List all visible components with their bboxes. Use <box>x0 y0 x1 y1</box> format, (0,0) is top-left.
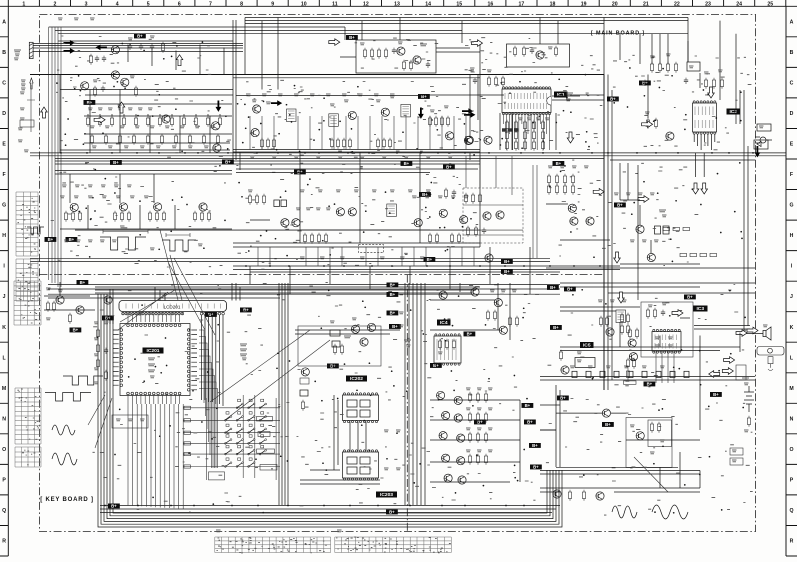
B+ supply label 40 <box>710 392 722 397</box>
jack contact symbol <box>760 137 766 143</box>
svg-text:9: 9 <box>271 1 274 7</box>
regulator IC5 body <box>575 358 595 368</box>
B+ supply label 15 <box>45 237 57 242</box>
B+ supply label 38 <box>550 325 562 330</box>
record level transistor <box>636 225 644 233</box>
IF stage 4 transistors <box>446 132 454 140</box>
B+ supply label 32 <box>524 420 536 425</box>
B+ supply label 18 <box>387 283 399 288</box>
row I long wires <box>30 258 620 266</box>
solid arrow right col9 <box>271 100 282 106</box>
jack open arrows <box>724 357 735 364</box>
center vertical bundle <box>279 283 288 505</box>
audio stage 4 resistors <box>193 211 196 222</box>
svg-text:O: O <box>2 447 6 453</box>
bottom long wires <box>100 506 560 513</box>
IC1 sub-circuit box above <box>507 44 570 67</box>
label speckle mid-left <box>51 163 226 267</box>
svg-text:K: K <box>2 325 6 331</box>
RF amp transistor Q1 <box>111 71 119 79</box>
FM detector text <box>360 43 365 45</box>
W1 dimension bar <box>103 230 148 234</box>
center band transistors 2 <box>336 208 344 216</box>
IC5 transistor <box>561 366 569 374</box>
IF text row <box>246 94 251 96</box>
svg-text:21: 21 <box>643 1 649 7</box>
solid arrow small near jack <box>755 146 761 157</box>
frame row ticks right <box>786 6 797 556</box>
power area wires <box>540 385 678 467</box>
left vertical bus lower continuation <box>49 158 61 287</box>
pointer diagonal lines key area <box>88 230 330 448</box>
IC203 reference label <box>376 492 397 499</box>
audio stage 3 transistor <box>154 203 162 211</box>
RF stage resistors row D <box>88 108 93 110</box>
RF text smudges E row <box>90 126 95 128</box>
B+ supply label 7 <box>418 94 430 99</box>
key area left drops <box>98 289 113 324</box>
label speckle mid-center <box>236 163 478 269</box>
IF stage 3 resistors <box>376 138 379 149</box>
IF stage 1 transformer T1 <box>287 109 297 122</box>
open arrow right D row <box>94 117 105 124</box>
voltage table T4 (left margin) <box>15 388 41 444</box>
center band transistors 3 <box>414 219 422 227</box>
divider crossing verticals <box>250 247 530 294</box>
telescopic antenna symbol <box>30 78 33 89</box>
horizontal resistors row H col21 <box>663 227 670 230</box>
bottom table header text <box>216 530 221 532</box>
headphone jack block right edge <box>757 124 771 131</box>
key scan resistors row 1 <box>468 392 471 403</box>
power switch transistor <box>602 409 610 417</box>
svg-text:25: 25 <box>767 1 773 7</box>
bold vertical at col 19 <box>603 75 605 391</box>
svg-text:IC202: IC202 <box>350 376 363 382</box>
solid arrow down col7 <box>216 101 222 112</box>
solid arrow down col13-14 <box>418 108 424 119</box>
waveform square margin W4b <box>63 376 103 385</box>
svg-text:20: 20 <box>612 1 618 7</box>
IC3 upper cluster parts <box>646 308 649 319</box>
key scan transistor pair row 3 <box>439 432 447 440</box>
audio stage 1 transistor <box>70 203 78 211</box>
svg-text:R: R <box>2 539 6 545</box>
label speckle mid-right <box>549 160 698 266</box>
IC1 notch <box>547 97 551 106</box>
RF stage wire row D <box>84 115 232 117</box>
IF stage 1 resistors <box>260 138 263 149</box>
signal arrow left A3 <box>96 45 107 51</box>
middle band extra wires <box>236 160 755 240</box>
B+ supply label 10 <box>110 160 122 165</box>
svg-text:F: F <box>790 172 793 178</box>
right band verticals <box>620 153 704 253</box>
svg-text:F: F <box>3 172 6 178</box>
row B tuning caps <box>128 44 132 50</box>
B+ supply label 16 <box>66 237 78 242</box>
open arrow right into IC2 <box>642 121 653 128</box>
balance pots boxes <box>274 200 280 207</box>
W1 level label <box>150 248 155 250</box>
osc transistor Q4 <box>213 144 221 152</box>
row F long wires <box>30 153 786 164</box>
label speckle ic202 area <box>297 282 401 505</box>
open arrow up at col6 row C <box>176 55 183 66</box>
svg-text:R: R <box>790 539 794 545</box>
IF stage 3 transistor <box>381 108 389 116</box>
row H long wire <box>75 229 480 231</box>
additional row E-F wires <box>55 24 604 159</box>
mid-left verticals <box>70 174 175 229</box>
IC2 reference label <box>727 109 741 116</box>
mute dashed box <box>359 245 384 253</box>
FM detector enclosure box <box>356 40 436 73</box>
voltage table T3 (left margin) <box>14 281 41 325</box>
IC2 upper resistor row <box>650 62 653 73</box>
FM detector transistors <box>397 47 405 55</box>
key switch matrix diagonal switches <box>236 407 238 409</box>
IC202 internal boxes <box>347 400 357 407</box>
main/key board divider dash-dot <box>39 274 604 276</box>
IC1 below resistor grid <box>505 120 508 131</box>
note text right <box>404 340 411 342</box>
svg-text:J: J <box>790 294 793 300</box>
label speckle ic4 area <box>402 285 539 500</box>
svg-text:12: 12 <box>363 1 369 7</box>
headphones rounded label box <box>757 347 784 356</box>
volume cluster boxes <box>330 330 340 336</box>
B+ supply label 20 <box>424 257 436 262</box>
DC-DC small parts <box>650 422 653 433</box>
audio stage 3 resistors <box>148 211 151 222</box>
B+ supply label 37 <box>547 285 559 290</box>
B+ supply label 26 <box>389 324 401 329</box>
IC2 top extra parts <box>704 78 707 89</box>
driver IC203 body with pins <box>343 450 379 480</box>
jack block box <box>736 365 746 380</box>
left margin small box row E <box>20 120 34 127</box>
IC2 left resistors <box>646 118 649 129</box>
IC2 test point box <box>687 62 700 71</box>
svg-text:2: 2 <box>54 1 57 7</box>
LCD top entry verticals <box>155 283 240 301</box>
IC4 area resistors upper <box>486 310 489 321</box>
IC4 right vertical <box>460 283 520 482</box>
G-H cluster filler parts <box>464 193 467 204</box>
ferrite bar antenna <box>29 42 33 58</box>
B+ supply label 25 <box>387 311 399 316</box>
IF stage 2 transistor <box>348 111 356 119</box>
wires right of IC1 <box>552 96 604 100</box>
svg-text:13: 13 <box>394 1 400 7</box>
IC203 internal boxes <box>347 457 357 464</box>
mid-left transistors row C <box>81 82 89 90</box>
IF stage 2 transformer T2 <box>329 114 339 127</box>
B+ supply label 24 <box>387 292 399 297</box>
B+ supply label 31 <box>522 403 534 408</box>
center verticals drops <box>258 247 474 266</box>
lower-left transistor near IC202 <box>301 368 309 376</box>
right area long wires <box>540 377 755 475</box>
B+ supply label 14 <box>614 203 626 208</box>
F row wires left <box>55 171 232 175</box>
svg-text:11: 11 <box>332 1 338 7</box>
B+ supply label 23 <box>70 328 82 333</box>
B+ supply label 33 <box>529 443 541 448</box>
open arrow right col21 G <box>638 196 649 203</box>
left K wires <box>44 282 95 310</box>
IC2 verticals <box>648 34 744 140</box>
audio band text rows <box>62 185 67 187</box>
wire row E <box>84 133 232 135</box>
IC2 upper caps <box>684 78 688 84</box>
svg-text:14: 14 <box>425 1 431 7</box>
col 19 vertical pair <box>608 75 612 391</box>
IF stage 4 resistors <box>428 116 431 127</box>
right bottom M-N wires <box>540 377 700 441</box>
center band resistors 3 <box>428 233 431 244</box>
hatched pot box <box>387 204 397 217</box>
IC4 internal parts <box>438 339 441 350</box>
svg-text:16: 16 <box>487 1 493 7</box>
B+ near supply rail <box>644 382 656 387</box>
IC3 cluster text <box>598 300 603 302</box>
FM wires <box>340 48 480 57</box>
open arrow right col10 <box>329 39 340 46</box>
IC4 reference label <box>437 320 451 327</box>
right band text DNR <box>659 210 666 212</box>
svg-text:B: B <box>790 50 794 56</box>
IC3 area wires <box>560 307 740 351</box>
IC201 pins bottom <box>127 392 130 395</box>
volume cluster resistors <box>333 344 336 355</box>
G-H dashed alignment box <box>463 188 523 243</box>
svg-text:M: M <box>2 386 6 392</box>
open arrow down above IC2 <box>708 87 715 98</box>
label speckle IC2 area <box>613 55 752 150</box>
solid arrow right col15 <box>462 108 473 114</box>
extra transistors G-H col 15-16 <box>483 212 491 220</box>
LCD201 pin row left group <box>122 312 125 315</box>
IC201 left text <box>94 322 99 324</box>
antenna feed wires <box>33 43 243 51</box>
B+ supply label 4 <box>134 34 146 39</box>
B+ supply label 29 <box>464 332 476 337</box>
svg-text:4: 4 <box>116 1 119 7</box>
open arrow down col20 J <box>618 292 625 303</box>
key board top nest wires <box>95 287 480 293</box>
IC1 below text <box>518 118 523 120</box>
IC1 internal text <box>566 93 573 95</box>
svg-text:P: P <box>790 477 794 483</box>
LCD201 pin row right group <box>200 312 203 315</box>
IC2 pin fan wires <box>694 134 715 150</box>
key matrix bottom label box <box>209 472 225 480</box>
B+ supply label 13 <box>294 170 306 175</box>
power amp IC2 body with pins <box>693 101 717 134</box>
IC201 pins right <box>187 329 190 332</box>
DC jack blocks right edge <box>730 448 743 455</box>
svg-text:IC1: IC1 <box>557 92 565 98</box>
svg-text:IC4: IC4 <box>440 320 448 326</box>
svg-text:E: E <box>790 142 794 148</box>
vertical drops top-left <box>128 20 236 160</box>
bottom row resistors <box>568 490 571 501</box>
label speckle top-left <box>56 36 231 157</box>
IC1 below transistors <box>465 136 473 144</box>
IC201 reference label <box>143 348 164 355</box>
top bus wires <box>49 18 688 42</box>
left J-K cluster transistor <box>56 296 64 304</box>
B+ supply label 19 <box>564 287 576 292</box>
double open arrows down <box>692 183 699 194</box>
IC4 ladder wires <box>430 300 520 482</box>
svg-text:H: H <box>2 233 6 239</box>
left J-K text <box>46 288 51 290</box>
key board right boundary dash-dot <box>406 275 408 532</box>
IC3 cluster enclosure box <box>641 302 693 357</box>
frame border top line <box>8 5 786 7</box>
svg-text:[ KEY BOARD ]: [ KEY BOARD ] <box>40 497 94 503</box>
frame column ticks top <box>8 0 786 6</box>
svg-text:E: E <box>2 142 6 148</box>
IC3 internal hatch <box>655 335 677 349</box>
upper IC4 transistors <box>439 291 447 299</box>
svg-text:Q: Q <box>2 508 6 514</box>
key scan transistor row 5 <box>444 474 452 482</box>
LCD display LCD201 body <box>119 301 227 312</box>
center band wires <box>233 220 480 247</box>
table text speckle bottom tables <box>17 198 450 553</box>
label speckle above IC1 <box>465 38 548 71</box>
oscilloscope waveform square W2 <box>162 240 196 251</box>
B+ supply label 28 <box>430 363 442 368</box>
DC-DC inner box <box>648 420 672 447</box>
IC201 left small transistor <box>104 296 112 304</box>
IC1 pin fan wires below <box>504 114 550 151</box>
antenna label text <box>14 50 21 52</box>
IF stage 1 transistors <box>253 105 261 113</box>
left J-K second transistor <box>76 306 84 314</box>
svg-text:17: 17 <box>519 1 525 7</box>
battery symbol right edge <box>744 386 754 412</box>
label speckle top-mid <box>240 80 478 157</box>
supply rail text <box>570 366 575 368</box>
open arrow to speaker mid <box>747 327 758 334</box>
horizontal resistors row I col22 <box>680 253 687 256</box>
IC201 internal text <box>148 358 155 360</box>
W2 level label <box>198 244 203 246</box>
svg-text:D: D <box>790 111 794 117</box>
IC3 verticals <box>604 322 740 390</box>
IC201 bottom pin fan wires <box>128 404 183 509</box>
IC202 text <box>384 430 389 432</box>
row B transistor Q5 <box>111 46 119 54</box>
svg-text:1: 1 <box>22 1 25 7</box>
svg-text:10: 10 <box>301 1 307 7</box>
key right vertical bundle <box>202 315 224 406</box>
DC-DC transistor <box>636 432 644 440</box>
key scan resistors row 2 <box>468 412 471 423</box>
svg-text:N: N <box>790 416 794 422</box>
IC202 area wires <box>295 330 400 484</box>
B+ supply label 6 <box>84 100 96 105</box>
key matrix left feed resistors <box>184 406 191 409</box>
svg-text:A: A <box>2 19 6 25</box>
right half K row wires <box>560 283 755 293</box>
speaker label <box>763 325 768 327</box>
svg-text:H: H <box>790 233 794 239</box>
right band wires <box>546 200 755 268</box>
svg-text:7: 7 <box>209 1 212 7</box>
LCD201 segment ticks <box>126 304 221 309</box>
row C wire <box>60 89 233 91</box>
IC2 internal pin text hatch <box>695 107 713 129</box>
row J bus below divider <box>48 284 560 294</box>
waveform square W4 <box>45 393 91 402</box>
key board nested bus <box>98 316 562 527</box>
IC2 input transistor <box>666 132 674 140</box>
B+ supply label 39 <box>602 422 614 427</box>
volume cluster enclosure <box>298 326 381 366</box>
microcontroller IC201 body <box>120 324 190 396</box>
frame row ticks left <box>0 6 8 556</box>
IC3 output arrow <box>672 310 683 317</box>
W2 dimension bar <box>166 233 190 237</box>
B+ supply label 35 <box>108 504 120 509</box>
bottom row transistors <box>553 490 561 498</box>
IC3 reference label <box>693 306 708 313</box>
svg-text:23: 23 <box>705 1 711 7</box>
oscilloscope waveform square W1 <box>100 237 146 250</box>
IC3 bottom drops <box>656 352 674 383</box>
svg-text:J: J <box>3 294 6 300</box>
IC1 area verticals <box>470 75 556 161</box>
waveform sine W8 (bottom right) <box>652 505 688 519</box>
IC pin voltage table (bottom right) <box>335 537 452 553</box>
IC3 left transistor <box>606 328 614 336</box>
svg-text:O: O <box>789 447 793 453</box>
waveform square margin W3 <box>27 227 44 234</box>
right band transistors <box>568 204 576 212</box>
audio stage 4 transistor <box>199 203 207 211</box>
key matrix right label boxes <box>257 417 273 422</box>
audio stage 2 resistors <box>113 211 116 222</box>
top-left bus labels <box>58 18 63 20</box>
label speckle IC1 area <box>462 46 602 150</box>
audio stage 1 resistors <box>64 211 67 222</box>
right edge text <box>742 378 749 380</box>
IC1 reference label <box>554 92 568 99</box>
LCD201 to IC201 wires <box>123 312 182 315</box>
waveform sine W7 (bottom right) <box>612 506 637 518</box>
tape switch transistor <box>485 254 493 262</box>
IC201 left components column <box>96 328 99 339</box>
left J-K extra resistor <box>68 313 71 324</box>
IC4 ladder text <box>466 388 471 390</box>
frame border left line <box>7 6 9 556</box>
row C parts <box>93 86 96 97</box>
IC1 decoupling row <box>473 78 477 84</box>
IC1 below cap row <box>502 128 506 131</box>
IF bottom wire <box>233 149 480 151</box>
open arrow up on boundary <box>41 107 48 118</box>
FM/AM tuner system IC1 body with pins <box>502 87 551 115</box>
signal arrow right A2 <box>64 48 75 54</box>
key scan resistors row 4 <box>468 454 471 465</box>
svg-text:18: 18 <box>550 1 556 7</box>
